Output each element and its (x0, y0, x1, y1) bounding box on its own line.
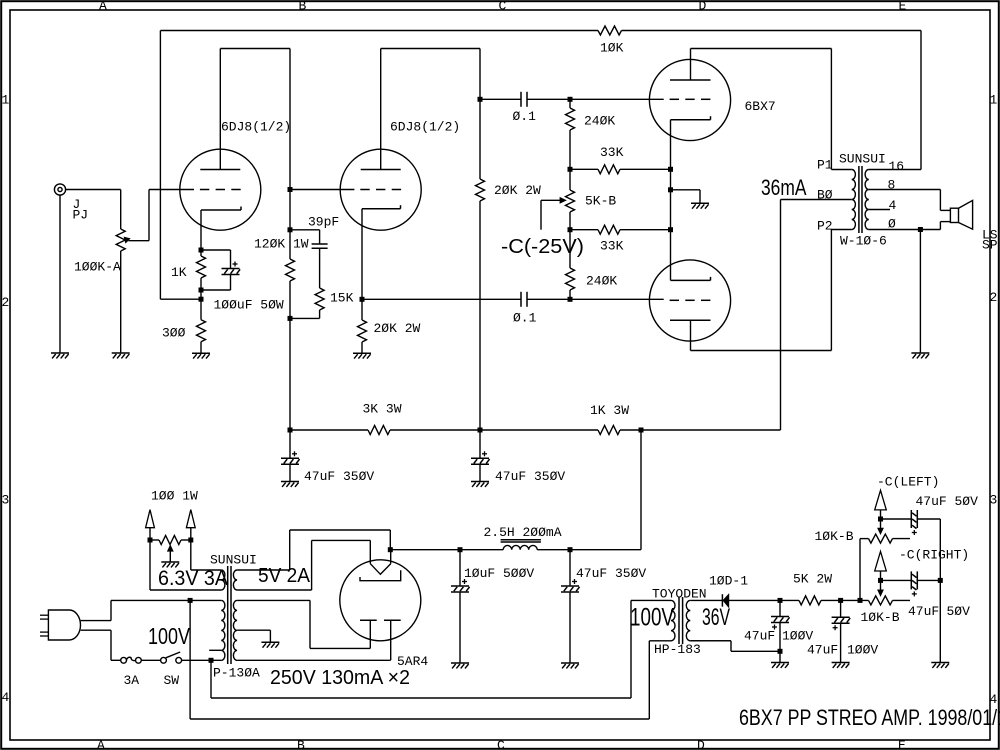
switch SW (161, 652, 182, 663)
svg-text:A: A (97, 738, 105, 750)
feedback wire from 16 ohm tap (160, 31, 598, 300)
cathode bus nodes (668, 167, 673, 232)
label 10D-1 (709, 574, 748, 589)
ground (volume pot) (112, 353, 130, 358)
svg-text:3A: 3A (124, 673, 140, 688)
ground (HV center tap) (261, 642, 279, 647)
V3 grid (dashed) (670, 98, 711, 100)
svg-text:BØ: BØ (817, 188, 833, 203)
wire cathode bus to ground (671, 190, 701, 204)
node 33K lower (568, 227, 573, 232)
svg-text:P1: P1 (817, 158, 833, 173)
label HP-183 (654, 642, 701, 657)
potentiometer 100 1W hum balance (148, 536, 194, 563)
resistor 33K upper (570, 165, 671, 174)
svg-text:E: E (898, 738, 906, 750)
svg-text:Ø: Ø (888, 217, 896, 232)
capacitor 10uF 500V (451, 550, 470, 663)
svg-text:B: B (297, 738, 305, 750)
svg-text:C: C (499, 0, 507, 13)
fuse 3A (121, 657, 142, 663)
svg-text:47uF 35ØV: 47uF 35ØV (495, 469, 565, 484)
svg-text:HP-183: HP-183 (654, 642, 701, 657)
label 6BX7 (745, 99, 776, 114)
secondary 4 ohm tap stub (869, 209, 890, 211)
label 0 tap (888, 217, 896, 232)
heater net flag left (146, 510, 155, 540)
AC wire down to upper rail (210, 660, 212, 698)
border zone letters bottom (97, 738, 906, 750)
label 100K-A (74, 260, 121, 275)
resistor 240K lower (566, 230, 575, 300)
PT HV top to 5AR4 left anode (237, 600, 370, 648)
capacitor 0.1 lower coupling (362, 292, 570, 307)
capacitor 47uF 50V (left bias) (881, 510, 941, 535)
label 15K (330, 291, 354, 306)
svg-text:1: 1 (990, 93, 998, 108)
svg-text:PJ: PJ (73, 208, 89, 223)
capacitor 39pF (290, 230, 328, 288)
ground (right rail cap) (471, 482, 489, 487)
label P-130A (213, 666, 260, 681)
label J / PJ (73, 197, 89, 223)
secondary 0 ohm tap wire (869, 222, 951, 232)
bias transformer secondary 36V (686, 600, 731, 640)
ground (300 resistor) (192, 353, 210, 358)
ground (first bias cap) (771, 651, 789, 668)
svg-text:47uF 35ØV: 47uF 35ØV (304, 469, 374, 484)
label 0.1 upper (513, 109, 537, 124)
resistor 3K 3W (288, 426, 481, 435)
label 6DJ8(1/2) V1 (221, 120, 291, 135)
svg-text:8: 8 (888, 178, 896, 193)
B+ wire from rectifier (388, 547, 641, 552)
label 6DJ8(1/2) V2 (390, 120, 460, 135)
label 100V bias primary (630, 604, 674, 632)
bias transformer TOYODEN HP-183 primary (631, 600, 675, 640)
svg-text:Ø.1: Ø.1 (513, 311, 537, 326)
label 20K 2W cathode (374, 321, 421, 336)
svg-text:24ØK: 24ØK (584, 114, 615, 129)
svg-text:47uF 5ØV: 47uF 5ØV (916, 494, 979, 509)
resistor 120K 1W plate load (286, 259, 295, 430)
ground (left rail cap) (281, 482, 299, 487)
svg-text:1ØØV: 1ØØV (847, 643, 878, 658)
svg-text:3: 3 (2, 493, 10, 508)
capacitor 47uF 350V (left rail) (281, 430, 300, 482)
svg-text:1ØK: 1ØK (600, 41, 624, 56)
svg-text:1K: 1K (171, 265, 187, 280)
feedback wire to output transformer (622, 31, 922, 170)
ground (V2 cathode load) (353, 353, 371, 358)
svg-text:1ØØK-A: 1ØØK-A (74, 260, 121, 275)
label 100V primary (148, 623, 191, 649)
label SUNSUI (PT) (210, 553, 257, 568)
svg-text:36V: 36V (702, 604, 730, 631)
5AR4 filament right lead to B+ (390, 550, 392, 564)
svg-text:6.3V 3A: 6.3V 3A (158, 567, 228, 590)
svg-text:100V: 100V (630, 604, 674, 632)
svg-text:Ø.1: Ø.1 (513, 109, 537, 124)
heater net flag right (186, 510, 195, 540)
svg-text:12ØK: 12ØK (254, 237, 285, 252)
secondary 16 ohm tap wire (869, 169, 921, 171)
5AR4 filament (370, 564, 390, 575)
V4 cathode (671, 230, 711, 281)
node lower grid (568, 297, 664, 302)
label P1 (817, 158, 833, 173)
svg-text:5V 2A: 5V 2A (258, 565, 311, 587)
ground (10uF) (451, 663, 469, 668)
triode V2 6DJ8(1/2) envelope (340, 149, 421, 230)
svg-text:E: E (899, 0, 907, 13)
svg-text:6BX7 PP STREO AMP. 1998/01/1: 6BX7 PP STREO AMP. 1998/01/1 (739, 705, 1000, 730)
input jack J PJ (54, 184, 65, 353)
label 1K (171, 265, 187, 280)
label 10uF 500V (464, 566, 534, 581)
node 33K upper (568, 167, 573, 172)
svg-text:C: C (497, 738, 505, 750)
svg-text:D: D (697, 738, 705, 750)
svg-text:250V 130mA ×2: 250V 130mA ×2 (270, 667, 410, 689)
resistor 1K cathode (197, 248, 206, 293)
svg-text:33K: 33K (600, 145, 624, 160)
svg-text:P2: P2 (817, 219, 833, 234)
label 1K 3W (590, 403, 629, 418)
label 120K 1W (254, 237, 309, 252)
border zone numbers left (2, 93, 10, 706)
resistor 20K 2W plate load (476, 99, 485, 430)
label 6.3V 3A (158, 567, 228, 590)
potentiometer 5K-B bias balance (541, 169, 575, 229)
svg-text:16: 16 (889, 159, 905, 174)
wire pot wiper to V1 grid (129, 190, 195, 241)
label 240K upper (584, 114, 615, 129)
node feedback / cathode junction (199, 290, 204, 320)
svg-text:A: A (99, 0, 107, 13)
svg-text:5ØV: 5ØV (947, 604, 971, 619)
label 100uF 50W (214, 298, 284, 313)
ground (second bias cap) (832, 663, 850, 668)
svg-text:1ØØ 1W: 1ØØ 1W (151, 489, 198, 504)
node 120K bottom (288, 316, 293, 321)
label 5K 2W (793, 572, 832, 587)
5AR4 filament left lead (369, 540, 371, 563)
output transformer SUNSUI W-10-6 primary (781, 170, 856, 230)
wire switch to PT primary (182, 658, 222, 663)
svg-text:1ØØV: 1ØØV (782, 629, 813, 644)
capacitor 47uF 350V (choke out) (561, 550, 580, 663)
power transformer SUNSUI P-130A core (228, 566, 231, 664)
label 300 (162, 326, 186, 341)
svg-text:47uF: 47uF (744, 629, 775, 644)
svg-text:3K 3W: 3K 3W (363, 402, 402, 417)
label 47uF 50V left (916, 494, 979, 509)
svg-text:15K: 15K (330, 291, 354, 306)
label 16 (889, 159, 905, 174)
svg-text:D: D (699, 0, 707, 13)
net flag -C(LEFT) (875, 490, 887, 521)
svg-text:1ØuF 5ØØV: 1ØuF 5ØØV (464, 566, 534, 581)
svg-text:24ØK: 24ØK (586, 274, 617, 289)
svg-text:5K-B: 5K-B (585, 194, 616, 209)
svg-text:1W: 1W (293, 237, 309, 252)
resistor 5K 2W (780, 596, 869, 605)
V3 plate (670, 49, 711, 81)
capacitor 47uF 100V (second) (832, 598, 851, 663)
output transformer core (859, 166, 862, 233)
resistor 33K lower (570, 225, 671, 234)
label 100 1W (151, 489, 198, 504)
svg-text:6DJ8(1/2): 6DJ8(1/2) (390, 120, 460, 135)
label LS SP (982, 228, 998, 253)
label 47uF 100V first (744, 629, 813, 644)
wire V3 plate to P1 (691, 49, 852, 170)
5AR4 anode right (384, 620, 401, 660)
label SUNSUI (OPT) (839, 151, 886, 166)
svg-text:39pF: 39pF (308, 215, 339, 230)
triode V3 6BX7 upper envelope (649, 59, 730, 140)
svg-text:1ØK-B: 1ØK-B (815, 529, 854, 544)
PT HV center tap to ground (237, 630, 270, 642)
svg-text:-C(-25V): -C(-25V) (501, 236, 584, 258)
label 47uF 350V right (495, 469, 565, 484)
svg-text:2ØK 2W: 2ØK 2W (374, 321, 421, 336)
label -C(RIGHT) (899, 548, 969, 563)
label 5AR4 (397, 654, 428, 669)
label 250V 130mA x2 (270, 667, 410, 689)
ground (bias caps) (931, 663, 949, 668)
svg-text:B: B (299, 0, 307, 13)
label 33K lower (600, 239, 624, 254)
capacitor 47uF 100V (first) (771, 598, 790, 654)
svg-text:3: 3 (990, 493, 998, 508)
svg-text:47uF: 47uF (807, 643, 838, 658)
wire to left bias pot (858, 539, 869, 603)
svg-text:4: 4 (2, 690, 10, 705)
node V1 plate / V2 grid (288, 49, 293, 260)
5AR4 plate bracket (360, 570, 401, 580)
label 0.1 lower (513, 311, 537, 326)
svg-text:1ØØuF 5ØW: 1ØØuF 5ØW (214, 298, 284, 313)
svg-text:SP: SP (982, 238, 998, 253)
label 8 (888, 178, 896, 193)
wire fuse to switch (141, 659, 160, 661)
label 240K lower (586, 274, 617, 289)
potentiometer 10K-B left bias (869, 519, 911, 543)
resistor 10K feedback (598, 26, 622, 35)
label 3K 3W (363, 402, 402, 417)
triode V1 6DJ8(1/2) envelope (180, 149, 261, 230)
svg-text:2: 2 (2, 295, 10, 310)
PT 5V bottom to filament (237, 540, 370, 590)
wire V4 plate to P2 (691, 230, 852, 351)
svg-text:TOYODEN: TOYODEN (652, 587, 707, 602)
label 4 (889, 198, 897, 213)
label -C(-25V) (501, 236, 584, 258)
resistor 240K upper (566, 99, 575, 169)
svg-text:4: 4 (889, 198, 897, 213)
svg-text:6BX7: 6BX7 (745, 99, 776, 114)
ground (input jack) (51, 353, 69, 358)
label P2 (817, 219, 833, 234)
capacitor 47uF 350V (right rail) (471, 430, 490, 482)
svg-text:47uF: 47uF (908, 604, 939, 619)
svg-text:2: 2 (990, 290, 998, 305)
svg-text:1ØK-B: 1ØK-B (861, 610, 900, 625)
label 2.5H 200mA (484, 525, 562, 540)
svg-text:1K 3W: 1K 3W (590, 403, 629, 418)
label 47uF 350V (choke out) (576, 566, 646, 581)
resistor 1K 3W (478, 426, 642, 435)
V1 plate (200, 49, 240, 170)
label 36mA (761, 175, 807, 200)
PT 5V 2A winding (233, 570, 237, 590)
rectifier 5AR4 envelope (340, 560, 421, 641)
svg-text:2ØK 2W: 2ØK 2W (494, 183, 541, 198)
triode V4 6BX7 lower envelope (649, 260, 730, 341)
svg-text:1: 1 (2, 93, 10, 108)
svg-text:-C(RIGHT): -C(RIGHT) (899, 548, 969, 563)
svg-text:1ØD-1: 1ØD-1 (709, 574, 748, 589)
wire V2 grid (290, 189, 354, 191)
label 47uF 50V right (908, 604, 970, 619)
border zone numbers right (990, 93, 998, 708)
loudspeaker LS SP (950, 200, 972, 229)
svg-text:47uF 35ØV: 47uF 35ØV (576, 566, 646, 581)
V1 grid (dashed) (200, 189, 241, 191)
AC upper rail to TOYODEN (211, 600, 631, 698)
resistor 15K (290, 288, 324, 318)
diode 10D-1 (722, 594, 780, 607)
PT primary 100V winding (209, 600, 225, 660)
label 3A (124, 673, 140, 688)
wire V1 plate load top (220, 48, 290, 50)
AC plug (40, 610, 81, 640)
V2 grid (dashed) (360, 189, 401, 191)
V2 plate (361, 49, 401, 170)
ground (hum balance wiper) (161, 562, 179, 567)
label 5V 2A (258, 565, 311, 587)
label 47uF 350V left (304, 469, 374, 484)
bias transformer core (679, 597, 683, 644)
wire left bias cap down (939, 519, 941, 580)
choke 2.5H 200mA (501, 540, 541, 550)
PT 6.3V 3A winding (150, 570, 225, 590)
V4 grid (dashed) (670, 299, 711, 301)
PT HV 250V winding (233, 600, 237, 660)
V4 plate (670, 320, 711, 350)
svg-text:2.5H 2ØØmA: 2.5H 2ØØmA (484, 525, 562, 540)
svg-text:SUNSUI: SUNSUI (210, 553, 257, 568)
wire 0 tap to ground (919, 230, 921, 354)
wire B0 to B+ rail (639, 200, 781, 433)
capacitor 47uF 50V (right bias) (881, 571, 943, 596)
label -C(LEFT) (877, 475, 939, 490)
svg-text:3ØØ: 3ØØ (162, 326, 186, 341)
svg-text:36mA: 36mA (761, 175, 807, 200)
output transformer secondary (865, 170, 869, 230)
V1 cathode (201, 207, 241, 251)
potentiometer 100K-A (116, 190, 130, 354)
net flag -C(RIGHT) (875, 551, 887, 583)
label B0 (817, 188, 833, 203)
label 10K-B left (815, 529, 854, 544)
svg-text:P-13ØA: P-13ØA (213, 666, 260, 681)
label 20K 2W plate (494, 183, 541, 198)
wire rail to choke node (640, 430, 642, 550)
capacitor 100uF 50W cathode bypass (201, 250, 240, 290)
resistor 300 cathode (197, 320, 206, 353)
label SW (164, 673, 180, 688)
wires hum balance to 6.3V winding (150, 540, 191, 590)
ground (output cathodes) (691, 203, 709, 208)
V2 cathode (362, 205, 401, 299)
wire 36V bottom to cap node (690, 641, 780, 652)
resistor 20K 2W cathode load (358, 297, 367, 353)
PT 5V top to filament (237, 530, 390, 570)
label 47uF 100V second (807, 643, 878, 658)
svg-text:SUNSUI: SUNSUI (839, 151, 886, 166)
node upper grid (568, 97, 664, 102)
label TOYODEN (652, 587, 707, 602)
capacitor 0.1 upper coupling (480, 92, 570, 107)
svg-text:-C(LEFT): -C(LEFT) (877, 475, 939, 490)
border zone letters top (99, 0, 907, 13)
label 36V (702, 604, 730, 631)
AC cord wires (81, 600, 222, 660)
svg-text:6DJ8(1/2): 6DJ8(1/2) (221, 120, 291, 135)
label 39pF (308, 215, 339, 230)
title 6BX7 PP STREO AMP. 1998/01/1 (739, 705, 1000, 730)
secondary 8 ohm tap wire (869, 190, 951, 211)
ground (47uF choke out) (561, 663, 579, 668)
node AC hot (188, 598, 193, 603)
wire right bias caps to ground (939, 580, 941, 662)
label 33K upper (600, 145, 624, 160)
wire V2 plate to coupling node (381, 49, 483, 102)
PT HV bottom to 5AR4 right anode (237, 659, 391, 661)
svg-text:SW: SW (164, 673, 180, 688)
AC lower rail to TOYODEN (190, 641, 649, 719)
wire jack to volume pot (66, 189, 121, 191)
label 10K (600, 41, 624, 56)
potentiometer 10K-B right bias (869, 580, 911, 605)
svg-text:5K 2W: 5K 2W (793, 572, 832, 587)
5AR4 anode left (360, 620, 377, 648)
svg-text:33K: 33K (600, 239, 624, 254)
AC wire down to lower rail (189, 600, 191, 719)
V3 cathode (671, 116, 711, 169)
label 5K-B (585, 194, 616, 209)
ground (speaker return) (911, 353, 929, 358)
label 10K-B right (861, 610, 900, 625)
svg-text:W-1Ø-6: W-1Ø-6 (840, 233, 887, 248)
label W-10-6 (840, 233, 887, 248)
svg-text:100V: 100V (148, 623, 191, 649)
